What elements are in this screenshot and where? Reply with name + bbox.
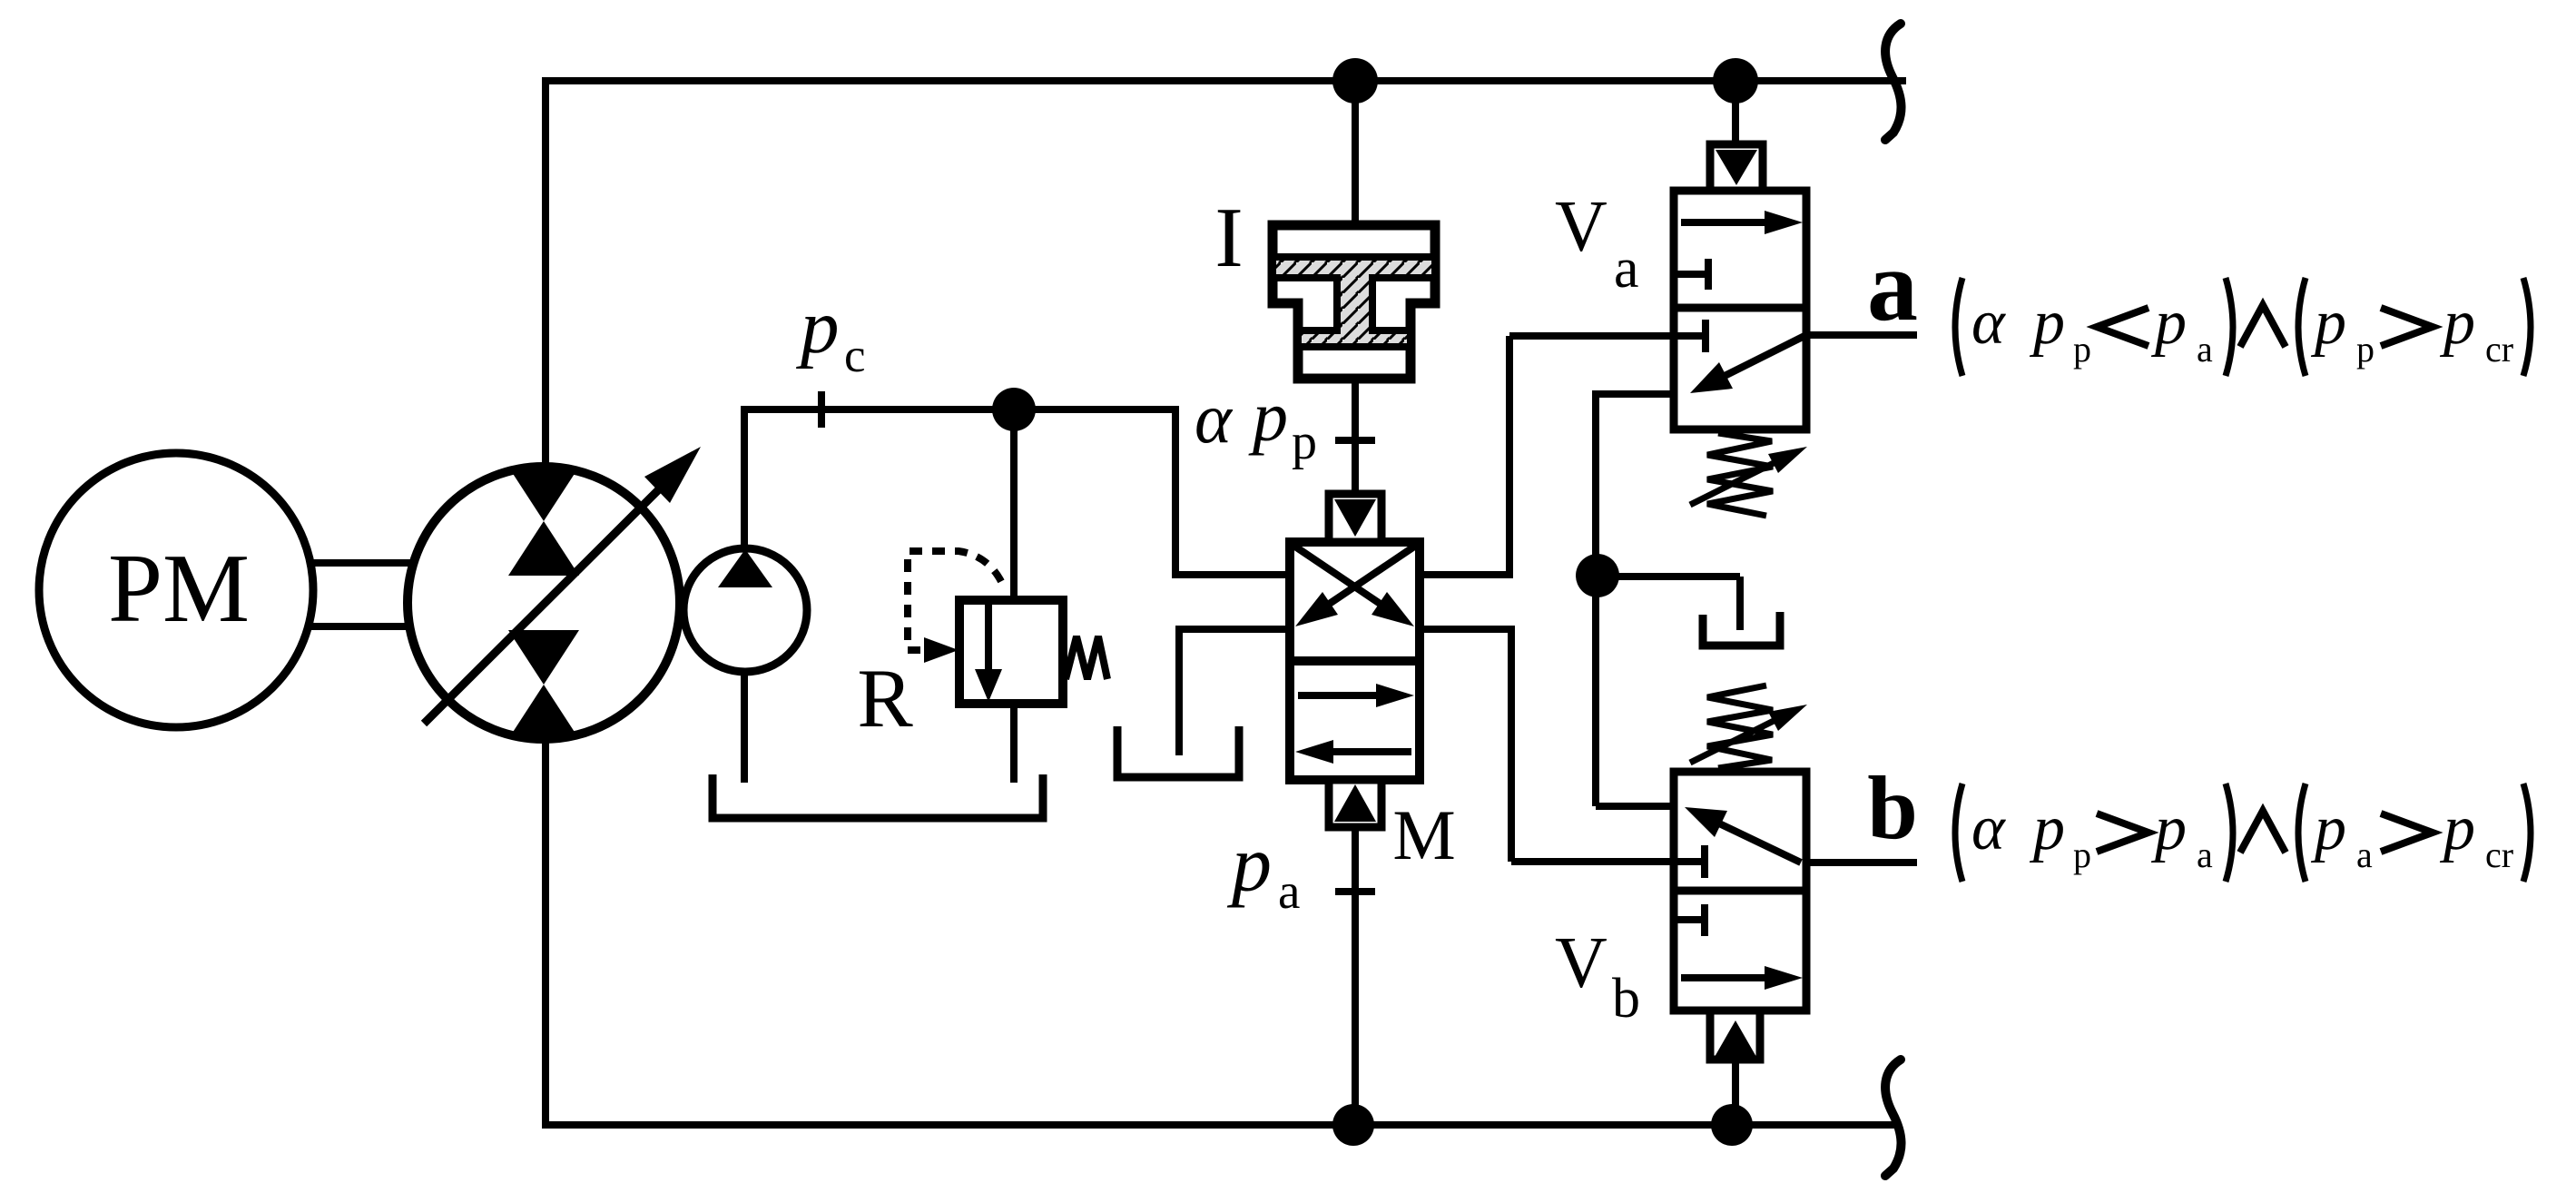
svg-text:p: p xyxy=(1248,377,1288,456)
svg-text:b: b xyxy=(1612,968,1640,1030)
svg-text:p: p xyxy=(796,284,840,370)
svg-text:R: R xyxy=(857,652,913,744)
svg-text:a: a xyxy=(2197,834,2213,875)
svg-text:I: I xyxy=(1214,191,1243,285)
svg-text:cr: cr xyxy=(2485,329,2513,370)
svg-text:p: p xyxy=(2439,288,2475,358)
svg-text:α: α xyxy=(1195,379,1234,458)
svg-text:p: p xyxy=(2073,329,2091,370)
svg-text:PM: PM xyxy=(108,535,250,643)
svg-text:p: p xyxy=(1292,414,1317,470)
svg-text:p: p xyxy=(2029,794,2065,863)
svg-text:p: p xyxy=(2029,288,2065,358)
svg-text:a: a xyxy=(1278,863,1300,919)
svg-text:a: a xyxy=(2356,834,2373,875)
svg-text:a: a xyxy=(2197,329,2213,370)
svg-text:p: p xyxy=(2150,794,2187,863)
svg-text:b: b xyxy=(1867,757,1918,858)
svg-text:α: α xyxy=(1971,288,2006,358)
svg-text:cr: cr xyxy=(2485,834,2513,875)
svg-text:a: a xyxy=(1614,238,1639,300)
svg-text:a: a xyxy=(1867,230,1918,342)
svg-text:p: p xyxy=(2439,794,2475,863)
svg-text:M: M xyxy=(1392,795,1455,874)
svg-text:c: c xyxy=(844,330,866,382)
svg-text:p: p xyxy=(2073,834,2091,875)
svg-text:V: V xyxy=(1555,187,1608,267)
svg-text:p: p xyxy=(2310,794,2346,863)
svg-text:p: p xyxy=(2356,329,2374,370)
svg-text:p: p xyxy=(2150,288,2187,358)
svg-text:V: V xyxy=(1555,923,1608,1003)
svg-text:p: p xyxy=(1226,821,1272,909)
svg-text:p: p xyxy=(2310,288,2346,358)
svg-text:α: α xyxy=(1971,794,2006,863)
